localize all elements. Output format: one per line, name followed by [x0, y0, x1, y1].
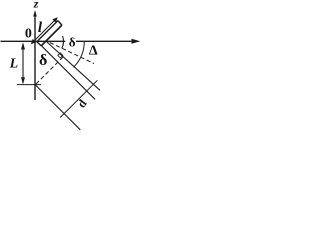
l dimension arrow — [34, 20, 56, 42]
svg-text:L: L — [9, 56, 19, 71]
mirror bar top cap — [58, 21, 62, 26]
svg-text:δ: δ — [69, 34, 76, 49]
right angle square marker — [58, 53, 63, 58]
x axis — [1, 40, 134, 42]
d dimension line — [60, 80, 97, 117]
z axis arrowhead — [33, 10, 37, 17]
x axis arrowhead — [132, 39, 141, 44]
svg-text:δ: δ — [39, 52, 47, 69]
mirror bar lower edge — [41, 25, 62, 46]
dashed DJ perpendicular from J — [36, 57, 63, 84]
big Delta arc — [74, 41, 85, 67]
mirror bar upper edge — [37, 21, 58, 42]
L dimension line — [22, 44, 24, 83]
z axis — [34, 14, 36, 100]
small delta arc (dashed) — [62, 36, 64, 48]
svg-text:Δ: Δ — [89, 43, 98, 58]
ray RJ from J — [36, 85, 81, 130]
halo under delta label — [65, 37, 76, 46]
dashed D1 deviated direction — [50, 43, 94, 64]
ray R1 from mirror lower tip — [41, 45, 95, 99]
L bottom tick — [17, 84, 41, 86]
svg-text:0: 0 — [25, 27, 32, 42]
svg-text:z: z — [33, 0, 39, 10]
ray R2 from axis — [45, 41, 100, 91]
l arrow top head — [52, 17, 57, 22]
mirror bar bottom cap — [37, 42, 41, 46]
l arrow bottom head — [31, 39, 36, 44]
